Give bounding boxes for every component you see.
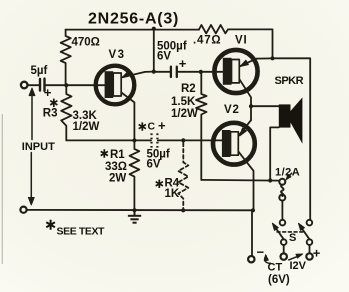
svg-text:SEE TEXT: SEE TEXT [57, 226, 106, 238]
wire CT terminal lead [283, 245, 285, 254]
label R4 star [156, 180, 163, 188]
node V3 emitter junction dot [152, 70, 156, 74]
wire fuse to switch contact [281, 201, 283, 220]
svg-text:.47Ω: .47Ω [193, 35, 221, 47]
svg-text:S: S [289, 232, 296, 244]
battery CT terminal circle [281, 253, 287, 259]
wire V1 emitter node to right rail [273, 58, 311, 220]
transistor V3 circle [96, 66, 135, 105]
node rail end junction dot [251, 208, 255, 212]
wire top rail right [228, 29, 273, 58]
input bottom terminal circle [20, 207, 26, 213]
svg-text:+: + [179, 56, 187, 71]
battery minus terminal circle [248, 256, 254, 262]
node speaker top junction dot [249, 104, 253, 108]
ground symbol [128, 210, 141, 222]
svg-text:6V: 6V [157, 51, 171, 63]
svg-text:1.5K: 1.5K [171, 96, 196, 108]
fuse label leader arrow [289, 173, 292, 176]
speaker SPKR [279, 97, 303, 143]
svg-text:2W: 2W [109, 172, 126, 184]
transistor V3 collector line [122, 93, 135, 141]
svg-text:INPUT: INPUT [22, 141, 55, 153]
node ground junction dot [132, 208, 136, 212]
wire plus terminal lead [309, 245, 311, 253]
svg-text:(6V): (6V) [268, 274, 290, 286]
svg-text:+: + [313, 246, 321, 261]
transistor V2 emitter arrow [240, 128, 247, 136]
svg-text:R3: R3 [43, 108, 58, 120]
transistor V2 base bars [222, 130, 238, 157]
transistor V3 emitter line [122, 72, 154, 78]
transistor V3 emitter arrow [122, 71, 130, 77]
node R4 bottom junction dot [181, 208, 185, 212]
input arrow upper line [31, 94, 33, 140]
svg-text:V3: V3 [109, 49, 126, 61]
resistor R4 dashed [178, 143, 188, 211]
fuse F1 [279, 179, 285, 201]
transistor V1 circle [214, 50, 257, 93]
node input junction dot [64, 83, 68, 87]
svg-text:VI: VI [235, 35, 247, 47]
svg-text:R1: R1 [110, 149, 125, 161]
input upper arrowhead [29, 88, 35, 96]
wire V3 emitter node to 500uf cap [154, 71, 170, 73]
CT label leader curl [265, 256, 271, 263]
battery plus terminal circle [306, 253, 312, 259]
svg-text:1/2W: 1/2W [73, 121, 100, 133]
input arrow line [30, 153, 32, 199]
node R2 top junction dot [199, 70, 203, 74]
transistor V1 collector line [239, 79, 251, 120]
switch S right contact [307, 220, 313, 226]
wire 500uf to V1 base [178, 71, 222, 73]
node R4 top junction dot [181, 138, 185, 142]
wire speaker bottom down to fuse node [270, 127, 279, 180]
wire bottom rail [27, 209, 253, 211]
node V3 collector junction dot [132, 138, 136, 142]
resistor R2 [196, 72, 206, 180]
svg-text:R2: R2 [181, 83, 196, 95]
svg-text:1/2A: 1/2A [275, 167, 300, 179]
wire 5uf to junction to V3 base [46, 84, 105, 86]
wire base rail left (R3 to C) [66, 139, 150, 141]
capacitor 5uf input left wire [28, 84, 39, 86]
input arrowhead [28, 198, 34, 206]
label R1 star [101, 149, 108, 157]
capacitor 5uf plates [40, 79, 45, 91]
resistor .47ohm [199, 25, 228, 33]
capacitor 500uf plates [171, 67, 177, 77]
scan edge artifact line [2, 114, 3, 264]
wire R2 bottom to fuse node [201, 179, 279, 182]
switch S left pivot [281, 239, 287, 245]
wire C to V2 base [150, 139, 159, 141]
node top wire junction dot [152, 27, 156, 31]
svg-text:SPKR: SPKR [275, 75, 304, 87]
svg-text:33Ω: 33Ω [105, 161, 127, 173]
svg-text:−: − [257, 245, 265, 260]
label SEE TEXT star [46, 220, 55, 230]
switch S left blade [275, 227, 283, 239]
svg-text:5µf: 5µf [31, 65, 48, 77]
transistor V2 emitter line [239, 120, 251, 135]
switch S right blade [301, 228, 309, 240]
label C star [139, 122, 146, 130]
svg-text:1/2W: 1/2W [171, 108, 198, 120]
transistor V3 base bars [105, 71, 122, 98]
transistor V2 collector line [238, 152, 253, 211]
svg-text:470Ω: 470Ω [72, 36, 100, 48]
switch S right blade arrow [299, 223, 305, 230]
transistor V1 emitter line [240, 58, 273, 66]
transistor V2 circle [213, 123, 255, 165]
resistor R5 470ohm [61, 30, 71, 86]
label R3 star [50, 99, 57, 107]
svg-text:C: C [148, 120, 156, 132]
node fuse top junction dot [268, 178, 272, 182]
svg-text:6V: 6V [147, 159, 161, 171]
capacitor C dotted plates [152, 133, 158, 147]
transistor V1 emitter arrow [240, 60, 248, 66]
12V label leader arrow [289, 256, 300, 260]
svg-text:I2V: I2V [290, 260, 307, 272]
switch S left contact [280, 220, 286, 226]
svg-text:2N256-A(3): 2N256-A(3) [88, 11, 179, 28]
svg-text:V2: V2 [224, 104, 240, 116]
svg-text:1K: 1K [165, 188, 180, 200]
wire V2 base [159, 139, 222, 141]
wire top rail [66, 29, 199, 31]
resistor R3 [61, 85, 71, 140]
switch S left blade arrow [272, 223, 278, 230]
node V1 emitter junction dot [270, 56, 274, 60]
wire top to V3 emitter junction [153, 29, 155, 72]
svg-text:+: + [44, 85, 52, 100]
resistor R1 [130, 140, 140, 210]
wire speaker top [251, 105, 279, 107]
switch S gang link dashed [277, 231, 305, 233]
input terminal circle [21, 82, 28, 89]
transistor V1 base bars [223, 58, 240, 85]
svg-text:CT: CT [268, 262, 283, 274]
switch S right pivot [307, 239, 313, 245]
svg-text:+: + [158, 118, 166, 133]
wire minus terminal lead [251, 210, 253, 256]
